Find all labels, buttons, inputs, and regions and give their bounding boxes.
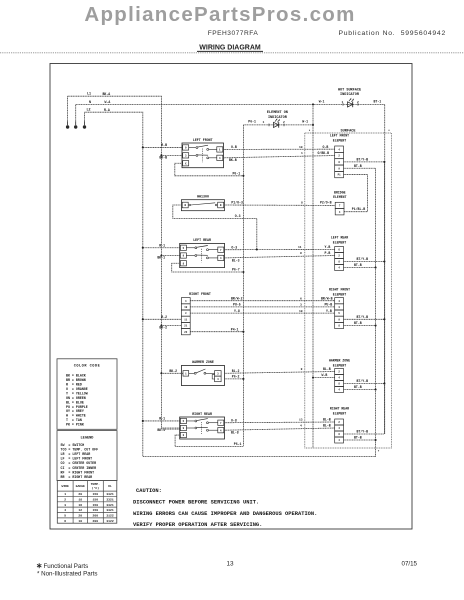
svg-text:W-B: W-B [322,373,328,377]
svg-text:BL-8: BL-8 [231,431,239,435]
svg-text:ELEMENT: ELEMENT [333,240,346,244]
svg-text:R-B: R-B [161,143,167,147]
svg-text:BL-B: BL-B [323,418,331,422]
svg-text:8: 8 [300,252,302,255]
svg-text:11: 11 [184,318,188,321]
svg-text:RIGHT FRONT: RIGHT FRONT [189,292,211,296]
svg-text:R = RED: R = RED [66,382,82,386]
svg-text:LEFT FRONT: LEFT FRONT [193,138,213,142]
svg-text:ELEMENT: ELEMENT [333,411,346,415]
svg-text:PU = PURPLE: PU = PURPLE [66,405,88,409]
svg-text:INDICATOR: INDICATOR [340,93,360,97]
svg-text:BK-B: BK-B [159,156,167,160]
svg-text:O = ORANGE: O = ORANGE [66,387,88,391]
svg-text:BK-A: BK-A [103,92,111,96]
svg-text:BK-B: BK-B [229,158,237,162]
svg-text:RIGHT FRONT: RIGHT FRONT [329,288,350,292]
svg-text:LR = LEFT REAR: LR = LEFT REAR [61,452,91,456]
svg-text:3122: 3122 [106,513,114,517]
svg-text:13: 13 [299,419,303,422]
svg-text:3122: 3122 [106,519,114,523]
svg-text:P6-1: P6-1 [248,120,256,124]
svg-text:RIGHT REAR: RIGHT REAR [192,412,212,416]
svg-text:07/15: 07/15 [402,561,418,568]
svg-text:Y-B: Y-B [326,309,332,313]
svg-text:18: 18 [78,519,82,523]
svg-text:BR = BROWN: BR = BROWN [66,378,86,382]
svg-text:20: 20 [78,513,82,517]
svg-text:(°C): (°C) [92,486,100,490]
svg-text:8: 8 [301,368,303,371]
svg-text:20: 20 [78,492,82,496]
svg-text:13: 13 [226,561,234,568]
svg-text:GAUGE: GAUGE [76,484,85,488]
svg-text:P6-7: P6-7 [232,268,240,272]
svg-text:BL-B: BL-B [323,424,331,428]
svg-text:*: * [378,450,380,455]
svg-text:LEFT REAR: LEFT REAR [331,236,348,240]
svg-text:RIGHT REAR: RIGHT REAR [330,407,349,411]
svg-text:ELEMENT: ELEMENT [333,138,346,142]
svg-text:3: 3 [64,503,66,507]
svg-text:BT/Y-B: BT/Y-B [357,158,369,162]
svg-text:O/BK-B: O/BK-B [318,151,330,155]
svg-text:HOT SURFACE: HOT SURFACE [338,89,361,93]
svg-text:1: 1 [64,492,66,496]
svg-text:P2/O-B: P2/O-B [320,201,332,205]
svg-text:BT-B: BT-B [354,321,362,325]
svg-text:6: 6 [64,519,66,523]
svg-text:BT-B: BT-B [354,436,362,440]
svg-text:BT/Y-B: BT/Y-B [357,430,369,434]
svg-text:O-3: O-3 [231,245,237,249]
svg-text:4: 4 [64,508,66,512]
svg-text:2: 2 [357,101,359,104]
svg-text:BL-3: BL-3 [232,258,240,262]
svg-text:BK-1: BK-1 [157,428,165,432]
svg-text:1: 1 [342,101,344,104]
svg-text:3: 3 [300,304,302,307]
svg-text:22: 22 [184,331,188,334]
svg-text:DISCONNECT POWER BEFORE SERVIC: DISCONNECT POWER BEFORE SERVICING UNIT. [133,500,259,506]
svg-text:200: 200 [93,513,99,517]
svg-text:WIRING DIAGRAM: WIRING DIAGRAM [199,45,261,52]
svg-text:P6-1: P6-1 [233,171,241,175]
svg-text:LEGEND: LEGEND [81,437,95,441]
svg-text:3321: 3321 [106,492,114,496]
svg-text:R-1: R-1 [159,417,165,421]
svg-text:TCO = TEMP. CUT OFF: TCO = TEMP. CUT OFF [61,447,99,451]
svg-text:O-B: O-B [323,145,329,149]
svg-text:T = TAN: T = TAN [66,418,82,422]
svg-text:* Non-Illustrated Parts: * Non-Illustrated Parts [37,570,98,577]
svg-text:PK = PINK: PK = PINK [66,423,84,427]
svg-text:PU-5: PU-5 [233,303,241,307]
svg-text:BL = BLUE: BL = BLUE [66,400,84,404]
svg-text:*: * [309,129,311,134]
svg-text:200: 200 [93,519,99,523]
svg-text:CO = CENTER OUTER: CO = CENTER OUTER [61,461,97,465]
svg-text:P-B: P-B [325,251,331,255]
svg-text:12: 12 [78,508,82,512]
svg-text:Y-B: Y-B [325,245,331,249]
svg-text:O-8: O-8 [231,418,237,422]
svg-text:3321: 3321 [106,497,114,501]
svg-text:O-3: O-3 [235,214,241,218]
svg-text:W = WHITE: W = WHITE [66,414,86,418]
svg-text:150: 150 [93,492,99,496]
svg-text:150: 150 [93,503,99,507]
svg-text:PU-B: PU-B [325,303,333,307]
svg-text:HW1300: HW1300 [197,194,209,198]
svg-text:ELEMENT ON: ELEMENT ON [267,111,288,115]
svg-text:21: 21 [184,325,188,328]
svg-text:BT/Y-B: BT/Y-B [357,315,369,319]
svg-text:AppliancePartsPros.com: AppliancePartsPros.com [84,3,355,26]
svg-text:P4-1: P4-1 [231,327,239,331]
svg-text:LEFT REAR: LEFT REAR [193,238,211,242]
svg-text:150: 150 [93,508,99,512]
svg-text:Y = YELLOW: Y = YELLOW [66,391,88,395]
svg-text:BL-2: BL-2 [232,369,240,373]
svg-text:5: 5 [64,513,66,517]
svg-text:UL: UL [108,484,112,488]
svg-text:2: 2 [64,497,66,501]
svg-text:10: 10 [299,146,303,149]
svg-text:ELEMENT: ELEMENT [333,363,346,367]
svg-text:LEFT FRONT: LEFT FRONT [330,134,349,138]
svg-text:18: 18 [78,497,82,501]
svg-text:CAUTION:: CAUTION: [136,488,162,494]
svg-text:GN = GREEN: GN = GREEN [66,396,86,400]
svg-text:P1/O-3: P1/O-3 [231,201,243,205]
svg-text:WARMER ZONE: WARMER ZONE [329,359,350,363]
svg-text:Functional Parts: Functional Parts [44,563,89,570]
svg-text:O-B: O-B [231,145,237,149]
svg-text:10: 10 [299,310,303,313]
svg-text:W-1: W-1 [319,99,325,103]
svg-text:RF = RIGHT FRONT: RF = RIGHT FRONT [61,470,95,474]
svg-text:BK-1: BK-1 [157,256,165,260]
svg-text:BT/Y-B: BT/Y-B [357,379,369,383]
svg-text:10: 10 [184,306,188,309]
svg-text:CI = CENTER INNER: CI = CENTER INNER [61,466,97,470]
svg-text:P1/BL-B: P1/BL-B [352,207,365,211]
svg-text:BT/Y-B: BT/Y-B [357,257,369,261]
svg-text:RR = RIGHT REAR: RR = RIGHT REAR [61,475,93,479]
svg-text:Y-8: Y-8 [234,309,240,313]
svg-text:BT-B: BT-B [354,164,362,168]
svg-text:WIRE: WIRE [61,484,69,488]
svg-text:Publication No. 5995604942: Publication No. 5995604942 [338,30,446,37]
svg-text:BK = BLACK: BK = BLACK [66,373,86,377]
svg-text:BK-2: BK-2 [169,369,177,373]
svg-text:BR/W-B: BR/W-B [321,296,333,300]
svg-text:2: 2 [283,121,285,124]
svg-text:8: 8 [301,202,303,205]
svg-text:VERIFY PROPER OPERATION AFTER: VERIFY PROPER OPERATION AFTER SERVICING. [133,522,262,528]
svg-text:LF = LEFT FRONT: LF = LEFT FRONT [61,457,93,461]
svg-text:3321: 3321 [106,508,114,512]
svg-text:FPEH3077RFA: FPEH3077RFA [208,30,259,37]
svg-text:*: * [388,129,390,134]
svg-text:6: 6 [300,297,302,300]
svg-text:COLOR CODE: COLOR CODE [74,364,101,368]
svg-text:GY = GREY: GY = GREY [66,409,84,413]
svg-text:R-A: R-A [104,108,110,112]
svg-text:1: 1 [301,152,303,155]
svg-text:P1: P1 [338,174,342,177]
svg-text:ELEMENT: ELEMENT [333,195,346,199]
svg-text:16: 16 [78,503,82,507]
svg-text:P6-1: P6-1 [234,442,242,446]
svg-text:1: 1 [263,121,265,124]
svg-text:3321: 3321 [106,503,114,507]
svg-text:BT-B: BT-B [354,263,362,267]
svg-text:BRIDGE: BRIDGE [334,190,346,194]
svg-text:BL-B: BL-B [323,367,331,371]
svg-text:W-1: W-1 [302,120,308,124]
svg-text:WARMER ZONE: WARMER ZONE [192,360,214,364]
svg-text:R-1: R-1 [159,243,165,247]
svg-text:ELEMENT: ELEMENT [333,292,346,296]
svg-text:INDICATOR: INDICATOR [268,116,288,120]
svg-text:4: 4 [300,425,302,428]
svg-text:WIRING ERRORS CAN CAUSE IMPROP: WIRING ERRORS CAN CAUSE IMPROPER AND DAN… [133,511,317,517]
svg-text:BR/W-2: BR/W-2 [231,296,243,300]
svg-text:BT-1: BT-1 [374,99,382,103]
svg-text:BK-2: BK-2 [159,326,167,330]
svg-text:11: 11 [298,246,302,249]
svg-text:SW = SWITCH: SW = SWITCH [61,443,85,447]
svg-text:P6-2: P6-2 [232,375,240,379]
svg-text:R-2: R-2 [161,315,167,319]
svg-text:BT-B: BT-B [354,385,362,389]
svg-text:W-A: W-A [105,100,111,104]
svg-text:150: 150 [93,497,99,501]
